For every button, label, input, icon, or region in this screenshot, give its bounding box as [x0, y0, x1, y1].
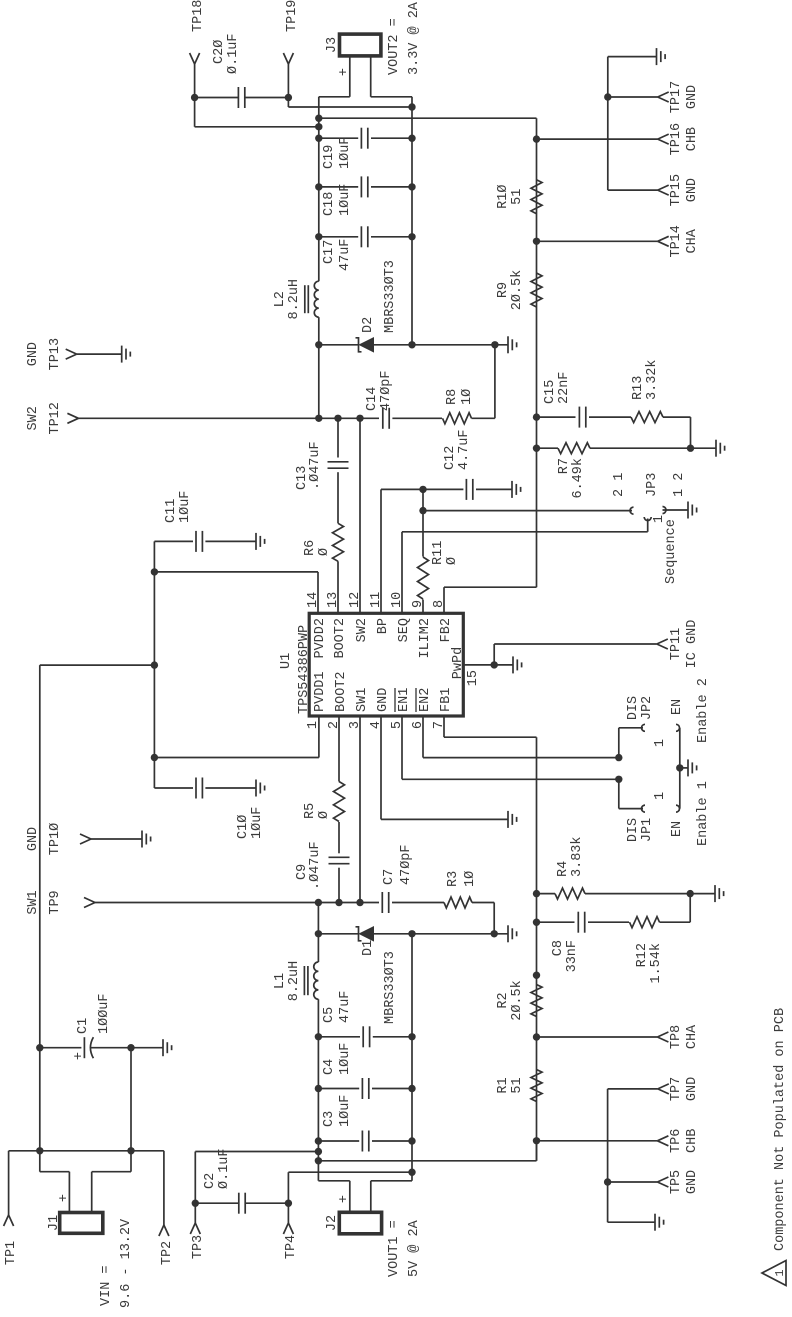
svg-text:R7: R7	[557, 458, 572, 474]
svg-text:1.54k: 1.54k	[649, 943, 664, 984]
svg-text:R8: R8	[445, 389, 460, 405]
wire CHB drop	[318, 1160, 536, 1162]
wire FB1 riser	[444, 736, 537, 738]
ground at R7	[715, 440, 717, 457]
wire TP4 riser	[288, 1171, 412, 1173]
wire TP15/TP17 ground line	[607, 57, 609, 191]
wire JP3 BP arm	[423, 510, 632, 512]
svg-text:9.6 - 13.2V: 9.6 - 13.2V	[119, 1218, 134, 1308]
svg-text:Ø.1uF: Ø.1uF	[217, 1148, 232, 1189]
node C1 bottom	[127, 1044, 134, 1051]
svg-text:47ØpF: 47ØpF	[379, 370, 394, 411]
wire pin5 EN1	[401, 716, 403, 779]
wire pin13 line	[337, 418, 339, 457]
svg-text:TP15: TP15	[669, 174, 684, 206]
capacitor C13 .047uF	[328, 467, 349, 469]
svg-text:C17: C17	[322, 240, 337, 264]
wire TP11 branch	[493, 644, 495, 665]
svg-text:TP1: TP1	[4, 1241, 19, 1265]
wire VOUT1 GND line	[411, 934, 413, 1181]
capacitor C17 47uF	[319, 236, 358, 238]
ground at R4	[714, 885, 716, 902]
svg-text:2 1: 2 1	[612, 473, 627, 497]
ground at PwPd	[512, 656, 514, 673]
resistor R13 3.32k	[631, 412, 663, 423]
wire J1 plus riser	[40, 1171, 70, 1173]
svg-text:1Ø: 1Ø	[463, 871, 478, 887]
wire BP vertical	[381, 488, 463, 490]
jumper JP3 BP contact	[630, 507, 633, 514]
node SW1 rail at pin3 line	[356, 899, 363, 906]
wire TP2 stub	[163, 1151, 165, 1225]
ground at C10	[255, 780, 257, 797]
test point TP12	[67, 418, 78, 423]
test point TP15 drop	[608, 189, 658, 191]
svg-text:TP8: TP8	[669, 1025, 684, 1049]
svg-text:BOOT2: BOOT2	[333, 618, 348, 659]
svg-text:CHB: CHB	[685, 1129, 700, 1153]
svg-text:SW2: SW2	[355, 618, 370, 642]
svg-text:C12: C12	[443, 446, 458, 470]
svg-text:D2: D2	[361, 317, 376, 333]
test point TP1	[4, 1215, 9, 1226]
svg-text:1ØØuF: 1ØØuF	[97, 993, 112, 1034]
svg-text:1Ø: 1Ø	[460, 389, 475, 405]
svg-text:GND: GND	[685, 1077, 700, 1101]
ground at C1	[162, 1039, 164, 1056]
svg-text:1: 1	[653, 792, 668, 800]
svg-text:CHB: CHB	[685, 127, 700, 151]
node D1 top	[315, 930, 322, 937]
node C17 top	[315, 233, 322, 240]
resistor R4 3.83k branch	[537, 893, 556, 895]
test point TP13 stem	[77, 353, 122, 355]
node CHA junction	[533, 1033, 540, 1040]
resistor R3 10	[444, 897, 472, 908]
node C2 top	[192, 1200, 199, 1207]
svg-text:R3: R3	[446, 871, 461, 887]
node SW2 rail at VOUT2 line	[315, 415, 322, 422]
test point TP2	[159, 1225, 164, 1236]
node C3 bottom	[408, 1137, 415, 1144]
node VIN rail at feed	[151, 661, 158, 668]
node CHB tap junction	[315, 1157, 322, 1164]
svg-text:.Ø47uF: .Ø47uF	[308, 841, 323, 890]
svg-text:C11: C11	[164, 499, 179, 523]
svg-text:GND: GND	[685, 1170, 700, 1194]
svg-text:BOOT2: BOOT2	[334, 671, 349, 712]
wire J3 minus riser	[371, 96, 412, 98]
wire snubber2 return	[494, 345, 496, 419]
node C20 bottom	[285, 94, 292, 101]
node TP4 at GND line	[408, 1169, 415, 1176]
wire pin11 BP	[380, 489, 382, 613]
node C19 bottom	[408, 134, 415, 141]
test point TP18	[190, 53, 195, 64]
node J1- junction	[127, 1147, 134, 1154]
svg-text:GND: GND	[26, 342, 41, 366]
svg-text:ILIM2: ILIM2	[418, 618, 433, 659]
wire VIN feed riser	[40, 664, 155, 666]
svg-text:51: 51	[510, 1077, 525, 1093]
jumper JP2 DIS contact	[642, 724, 646, 731]
wire TP19 riser	[288, 106, 412, 108]
wire pin7 FB1	[443, 716, 445, 737]
ground at TP15/TP17	[656, 48, 658, 65]
test point TP17 drop	[608, 96, 658, 98]
capacitor C19 10uF	[319, 137, 358, 139]
svg-text:TP3: TP3	[191, 1235, 206, 1259]
wire TP5/TP7 ground line	[607, 1089, 609, 1222]
resistor R12 1.54k	[630, 917, 660, 928]
svg-text:TP13: TP13	[48, 338, 63, 370]
wire pin4 GND	[380, 716, 382, 819]
svg-text:C19: C19	[322, 145, 337, 169]
resistor R1 51	[531, 1070, 542, 1102]
wire TP1/TP2 vertical	[9, 1150, 164, 1152]
wire FB2 line	[536, 118, 538, 587]
test point TP14 drop	[537, 240, 658, 242]
wire R10 riser from VOUT2	[319, 117, 537, 119]
capacitor C8 33nF branch	[537, 921, 575, 923]
svg-text:TP17: TP17	[669, 81, 684, 113]
wire J3 plus lead	[349, 56, 351, 97]
svg-text:3.83k: 3.83k	[570, 836, 585, 877]
diode D1 MBRS330T3	[318, 933, 358, 935]
test point TP10	[80, 839, 91, 844]
svg-text:DIS: DIS	[626, 818, 641, 842]
node C20 top	[191, 94, 198, 101]
test point TP8 drop	[537, 1036, 658, 1038]
jumper JP2 DIS arm	[618, 728, 620, 758]
wire L2 to VOUT2	[318, 97, 320, 281]
jumper JP3 ground contact	[663, 507, 667, 514]
svg-text:TP2: TP2	[160, 1241, 175, 1265]
test point TP4	[283, 1223, 288, 1234]
capacitor C1 100uF polarized	[83, 1037, 85, 1058]
svg-text:GND: GND	[685, 178, 700, 202]
wire PwPd to ground	[494, 664, 513, 666]
node C18 bottom	[408, 183, 415, 190]
node TP14 junction	[533, 238, 540, 245]
svg-text:TP1Ø: TP1Ø	[48, 823, 63, 855]
svg-text:C2: C2	[203, 1173, 218, 1189]
svg-text:PVDD2: PVDD2	[313, 618, 328, 659]
svg-text:3.3V @ 2A: 3.3V @ 2A	[407, 1, 422, 75]
wire pin6 EN2	[422, 716, 424, 758]
wire J1 plus link to VIN node	[39, 1151, 41, 1172]
resistor R9 20.5k	[531, 273, 542, 307]
node D2 at GND line	[408, 341, 415, 348]
wire TP3 riser	[195, 1151, 318, 1153]
svg-text:SW2: SW2	[26, 406, 41, 430]
resistor R11 0 ohm	[418, 557, 429, 599]
diode D2 MBRS330T3	[319, 344, 359, 346]
node C3 top	[315, 1137, 322, 1144]
svg-text:.Ø47uF: .Ø47uF	[308, 441, 323, 490]
node TP18 riser junction	[315, 123, 322, 130]
svg-text:1: 1	[773, 1269, 787, 1276]
wire SW1 rail vertical	[95, 902, 379, 904]
svg-text:15: 15	[466, 670, 481, 686]
svg-text:SW1: SW1	[355, 688, 370, 712]
svg-text:C8: C8	[551, 940, 566, 956]
ground at D1	[507, 925, 509, 942]
wire pin2 line	[338, 868, 340, 903]
svg-text:2Ø.5k: 2Ø.5k	[510, 270, 525, 311]
svg-text:TPS54386PWP: TPS54386PWP	[297, 625, 312, 714]
capacitor C2 0.1uF	[195, 1202, 239, 1204]
wire R12 return	[689, 894, 691, 923]
svg-text:IC GND: IC GND	[685, 620, 700, 669]
connector J2 body	[339, 1212, 381, 1234]
resistor R6 0 ohm	[333, 523, 344, 561]
svg-text:Enable 1: Enable 1	[696, 781, 711, 846]
capacitor C5 47uF	[318, 1036, 360, 1038]
node C19 top	[315, 134, 322, 141]
svg-text:TP6: TP6	[669, 1129, 684, 1153]
note triangle flag 1	[762, 1261, 786, 1286]
node SW2 rail at pin13 line	[334, 415, 341, 422]
svg-text:47uF: 47uF	[338, 239, 353, 271]
wire TP4 line	[287, 1172, 289, 1223]
svg-text:CHA: CHA	[685, 228, 700, 253]
ground at TP5/TP7	[654, 1214, 656, 1231]
jumper JP1 DIS contact	[642, 805, 646, 812]
svg-text:U1: U1	[279, 653, 294, 669]
node FB2 at C15	[533, 413, 540, 420]
test point TP16 drop	[537, 138, 658, 140]
svg-text:33nF: 33nF	[565, 940, 580, 972]
wire TP17 ground stem	[608, 56, 657, 58]
wire TP19 line	[287, 64, 289, 107]
svg-text:R1: R1	[496, 1077, 511, 1093]
wire snubber1 return	[493, 903, 495, 934]
svg-text:3.32k: 3.32k	[645, 359, 660, 400]
wire J1 minus riser	[92, 1171, 131, 1173]
wire FB2 riser	[444, 586, 537, 588]
wire EN2 riser	[423, 757, 619, 759]
svg-text:1ØuF: 1ØuF	[178, 491, 193, 523]
svg-text:TP11: TP11	[669, 628, 684, 660]
wire pin1 PVDD1	[318, 716, 320, 758]
svg-text:1ØuF: 1ØuF	[338, 1043, 353, 1075]
jumper JP3 center contact	[644, 517, 651, 520]
wire SEQ to JP3 center	[647, 519, 649, 532]
svg-text:GND: GND	[685, 85, 700, 109]
node VIN rail at pin14 riser	[151, 568, 158, 575]
node C4 bottom	[408, 1085, 415, 1092]
resistor R7 6.49k branch	[537, 447, 559, 449]
wire pin12 SW2	[359, 418, 361, 613]
wire FB1 line	[536, 737, 538, 1161]
svg-text:R1Ø: R1Ø	[496, 185, 511, 209]
svg-text:C1Ø: C1Ø	[236, 815, 251, 839]
svg-text:J3: J3	[325, 37, 340, 53]
resistor R10 51	[531, 180, 542, 214]
svg-text:8.2uH: 8.2uH	[287, 961, 302, 1002]
node FB1 at R4	[533, 890, 540, 897]
node R10 riser at VOUT2 line	[315, 114, 322, 121]
capacitor C11 branch wire	[154, 540, 193, 542]
jumper JP2 EN contact	[676, 724, 680, 731]
capacitor C4 10uF	[318, 1088, 359, 1090]
svg-text:C4: C4	[322, 1059, 337, 1075]
capacitor C15 22nF branch	[537, 416, 576, 418]
ground at D2	[507, 336, 509, 353]
svg-text:J1: J1	[47, 1215, 62, 1231]
ground at C11	[255, 533, 257, 550]
svg-text:C15: C15	[543, 380, 558, 404]
wire pin4 GND drop	[381, 818, 508, 820]
svg-text:47uF: 47uF	[338, 991, 353, 1023]
svg-text:TP14: TP14	[669, 225, 684, 257]
wire C1 to ground	[131, 1047, 163, 1049]
inductor L1 8.2uH	[314, 962, 319, 999]
capacitor C14 470pF	[382, 408, 384, 429]
svg-text:R9: R9	[496, 282, 511, 298]
node BP at R11	[419, 486, 426, 493]
wire J1 minus lead	[91, 1172, 93, 1213]
jumper JP1 EN contact	[676, 805, 680, 812]
svg-text:C18: C18	[322, 192, 337, 216]
wire J3 plus riser	[319, 96, 350, 98]
svg-text:6.49k: 6.49k	[571, 458, 586, 499]
test point TP5 drop	[608, 1181, 658, 1183]
svg-text:22nF: 22nF	[557, 372, 572, 404]
wire VOUT2 GND line	[411, 97, 413, 345]
capacitor C3 10uF	[318, 1140, 359, 1142]
svg-text:C5: C5	[322, 1007, 337, 1023]
node D2 at snubber return	[491, 341, 498, 348]
wire TP1 stub	[8, 1151, 10, 1215]
node EN1 at JP1	[615, 776, 622, 783]
jumper JP1 EN arm	[679, 768, 681, 809]
wire EN1 riser	[402, 778, 619, 780]
connector J3 body	[340, 34, 381, 56]
wire D2 to L2	[318, 317, 320, 345]
test point TP3	[190, 1223, 195, 1234]
svg-text:Component Not Populated on PCB: Component Not Populated on PCB	[773, 1008, 788, 1251]
wire TP18 riser	[195, 126, 319, 128]
svg-text:1: 1	[653, 739, 668, 747]
node C4 top	[315, 1085, 322, 1092]
svg-text:VOUT1 =: VOUT1 =	[387, 1220, 402, 1277]
svg-text:CHA: CHA	[685, 1024, 700, 1049]
wire J2 plus lead	[349, 1181, 351, 1213]
resistor R2 20.5k	[531, 985, 542, 1017]
wire J3 minus lead	[370, 56, 372, 97]
wire L1 to SW1 rail	[317, 903, 319, 963]
svg-text:MBRS33ØT3: MBRS33ØT3	[383, 260, 398, 333]
wire enable ground stem	[680, 767, 688, 769]
ground at JP3	[687, 502, 689, 519]
svg-text:+: +	[72, 1052, 87, 1060]
svg-text:R2: R2	[496, 992, 511, 1008]
svg-text:PVDD1: PVDD1	[313, 671, 328, 712]
node D1 at GND line	[408, 930, 415, 937]
svg-text:C7: C7	[382, 869, 397, 885]
ground at C12	[511, 481, 513, 498]
test point TP11	[657, 644, 668, 649]
node TP3 riser junction	[315, 1148, 322, 1155]
svg-text:R5: R5	[303, 803, 318, 819]
capacitor C7 470pF	[381, 892, 383, 913]
inductor L2 8.2uH	[314, 281, 319, 317]
node TP16 junction	[533, 135, 540, 142]
node SW2 rail at pin12 line	[356, 415, 363, 422]
wire pin14 riser	[154, 571, 318, 573]
wire SW2 rail vertical	[78, 417, 379, 419]
svg-text:JP3: JP3	[645, 473, 660, 497]
node C17 bottom	[408, 233, 415, 240]
svg-text:R13: R13	[631, 376, 646, 400]
ground at TP13	[121, 346, 123, 363]
svg-text:TP16: TP16	[669, 123, 684, 155]
capacitor C9 .047uF	[329, 863, 350, 865]
wire pin8 FB2	[443, 587, 445, 613]
wire SEQ riser	[402, 531, 648, 533]
node FB1 at C8	[533, 919, 540, 926]
svg-text:C1: C1	[76, 1018, 91, 1034]
svg-text:1ØuF: 1ØuF	[250, 807, 265, 839]
node C2 bottom	[285, 1200, 292, 1207]
ground at TP10	[141, 831, 143, 848]
capacitor C10 branch wire	[154, 787, 193, 789]
svg-text:51: 51	[510, 189, 525, 205]
svg-text:PwPd: PwPd	[451, 647, 466, 679]
node SW1 rail at pin2 line	[335, 899, 342, 906]
svg-text:R4: R4	[556, 861, 571, 877]
svg-text:1ØuF: 1ØuF	[338, 137, 353, 169]
node enable ground junction	[676, 764, 683, 771]
svg-text:TP12: TP12	[48, 402, 63, 434]
svg-text:4.7uF: 4.7uF	[457, 429, 472, 470]
node D1 at snubber return	[491, 930, 498, 937]
wire J1 plus lead	[68, 1172, 70, 1213]
capacitor C18 10uF	[319, 186, 358, 188]
svg-text:47ØpF: 47ØpF	[399, 844, 414, 885]
svg-text:GND: GND	[376, 688, 391, 712]
wire pin15 PwPd	[463, 664, 494, 666]
svg-text:1 2: 1 2	[672, 473, 687, 497]
svg-text:TP4: TP4	[284, 1235, 299, 1259]
svg-text:C14: C14	[365, 387, 380, 411]
svg-text:C3: C3	[322, 1111, 337, 1127]
capacitor C12 4.7uF	[465, 479, 467, 500]
wire JP3 ground stem	[663, 509, 689, 511]
wire VIN feed top	[39, 665, 41, 1151]
svg-text:JP2: JP2	[640, 696, 655, 720]
wire VIN rail horizontal	[153, 541, 155, 788]
resistor R5 0 ohm	[334, 782, 345, 822]
connector J1 body	[60, 1213, 103, 1234]
wire J2 minus lead	[370, 1181, 372, 1213]
svg-text:SEQ: SEQ	[397, 618, 412, 642]
svg-text:J2: J2	[325, 1215, 340, 1231]
node PwPd junction	[491, 661, 498, 668]
ground at pin4	[507, 811, 509, 828]
svg-text:EN1: EN1	[397, 688, 412, 712]
svg-text:TP19: TP19	[285, 0, 300, 32]
test point TP7 drop	[608, 1088, 658, 1090]
node C1 top	[36, 1044, 43, 1051]
capacitor C1 vertical wire top	[40, 1047, 82, 1049]
svg-text:TP18: TP18	[191, 0, 206, 32]
svg-text:Ø: Ø	[317, 811, 332, 819]
wire pin9 ILIM2 with R11	[422, 600, 424, 614]
node SW1 rail at VOUT1 line	[315, 899, 322, 906]
